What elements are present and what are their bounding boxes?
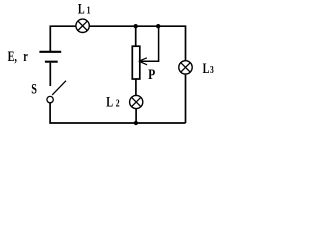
- svg-text:1: 1: [87, 6, 91, 17]
- svg-text:L: L: [203, 60, 210, 76]
- label L2: [106, 94, 120, 110]
- wire right edge lower (L3 to bottom-right corner): [185, 74, 187, 123]
- wire top-left horizontal (corner to lamp L1): [50, 26, 76, 51]
- svg-text:S: S: [31, 81, 37, 97]
- svg-text:r: r: [23, 48, 28, 64]
- rheostat P body: [132, 46, 140, 79]
- svg-text:P: P: [148, 66, 155, 83]
- wire battery to switch: [49, 63, 51, 86]
- wire top wire to rheostat: [135, 26, 137, 46]
- node junction dot 2: [156, 24, 160, 28]
- wire lamp L2 to bottom wire: [135, 109, 137, 123]
- wire switch to bottom-left corner and bottom wire: [50, 103, 185, 123]
- svg-text:L: L: [78, 1, 85, 17]
- node junction dot 1: [134, 24, 138, 28]
- wire top-right horizontal (lamp L1 to top-right corner): [89, 26, 185, 61]
- svg-text:2: 2: [116, 99, 120, 110]
- svg-text:E,: E,: [8, 48, 17, 64]
- battery E,r: [39, 52, 61, 62]
- label L1: [78, 1, 91, 17]
- svg-text:L: L: [106, 94, 113, 110]
- lamp L2: [130, 95, 143, 108]
- label L3: [203, 60, 214, 76]
- lamp L3: [179, 61, 192, 74]
- node junction dot 3: [134, 121, 138, 125]
- wiper arm branch of P: [139, 26, 159, 65]
- wire rheostat to lamp L2: [135, 79, 137, 96]
- lamp L1: [76, 19, 89, 32]
- svg-text:3: 3: [210, 65, 214, 76]
- switch S: [47, 81, 66, 103]
